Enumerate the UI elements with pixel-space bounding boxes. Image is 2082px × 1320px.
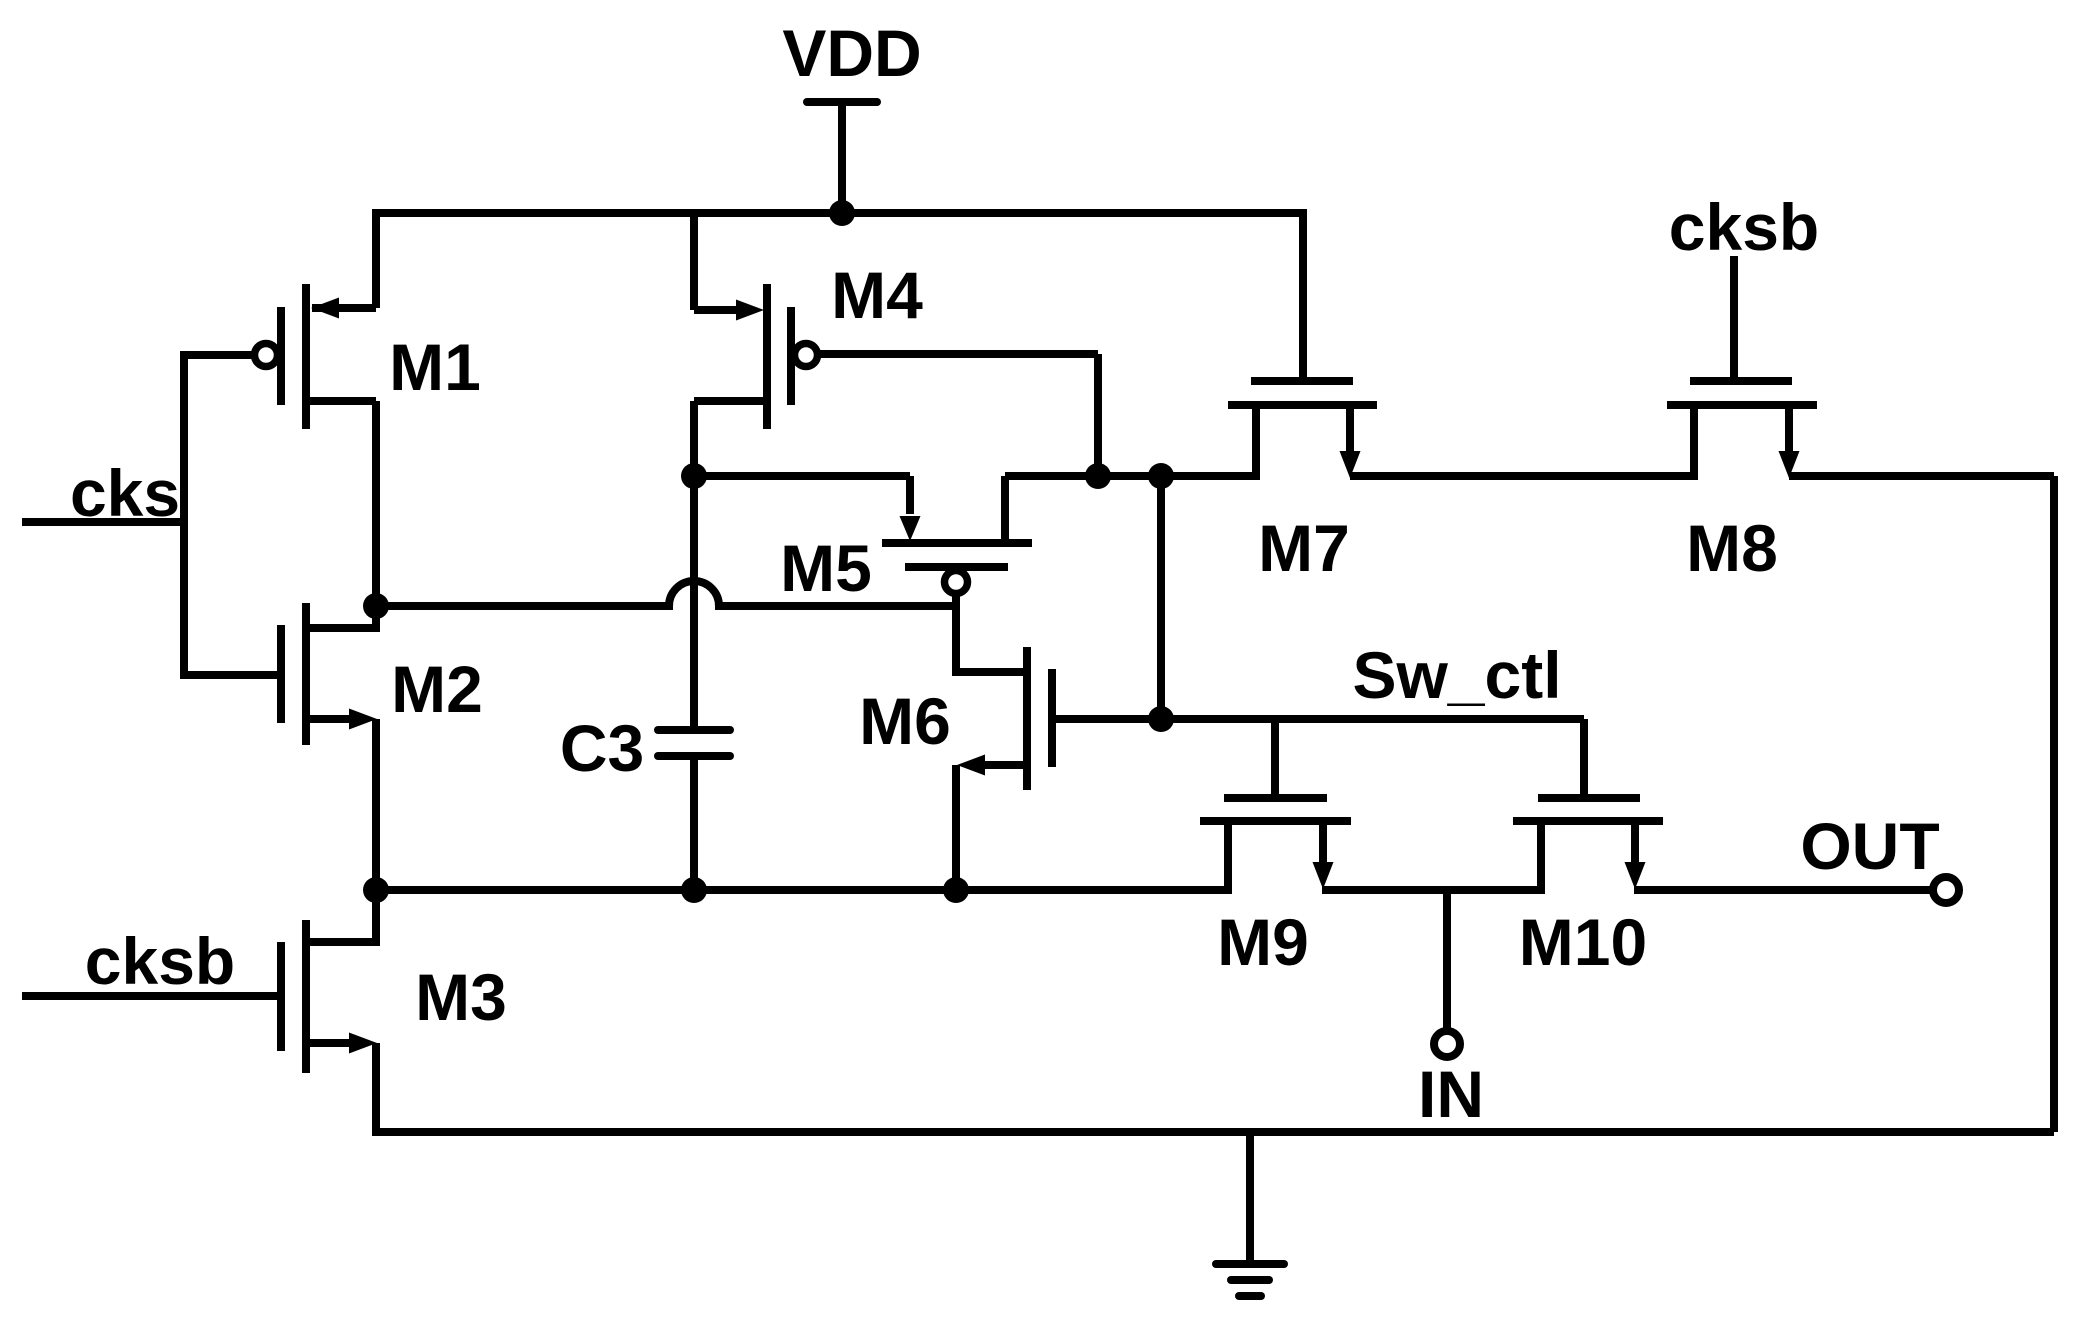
capacitor C3	[560, 476, 730, 894]
terminal IN	[1418, 890, 1484, 1131]
net Sw_ctl	[1161, 638, 1584, 798]
node C3 bottom junction	[681, 877, 707, 903]
svg-text:OUT: OUT	[1800, 809, 1939, 883]
node VDD junction	[829, 200, 855, 226]
svg-text:M4: M4	[831, 258, 923, 332]
transistor M10	[1513, 798, 1663, 979]
wire boost node line with hop	[376, 581, 956, 606]
svg-text:M6: M6	[859, 684, 951, 758]
node M6 gate junction	[1148, 706, 1174, 732]
svg-text:Sw_ctl: Sw_ctl	[1352, 638, 1561, 712]
wire bottom ground rail	[372, 1128, 2054, 1136]
svg-text:M2: M2	[391, 652, 483, 726]
transistor M5	[780, 476, 1032, 605]
svg-text:IN: IN	[1418, 1057, 1484, 1131]
wire boosted node rail	[694, 476, 1256, 719]
node M1 source / M2 drain junction	[363, 593, 389, 619]
wire M8 drain to bottom right rail	[1789, 476, 2054, 1132]
node M6 gate riser junction	[1148, 463, 1174, 489]
node M6 source junction	[943, 877, 969, 903]
power VDD	[782, 16, 921, 213]
wire M1 source riser	[372, 401, 380, 610]
svg-text:M3: M3	[415, 960, 507, 1034]
transistor M2	[184, 603, 483, 894]
wire M5 gate to M6 drain stem	[952, 590, 960, 676]
svg-text:M10: M10	[1519, 905, 1647, 979]
transistor M7	[1228, 209, 1377, 585]
svg-text:M7: M7	[1258, 511, 1350, 585]
wire lower node rail	[376, 886, 1228, 894]
svg-text:M8: M8	[1686, 511, 1778, 585]
wire M1 drain riser	[372, 209, 380, 308]
ground	[1216, 1132, 1284, 1296]
terminal OUT	[1800, 809, 1959, 903]
svg-text:VDD: VDD	[782, 16, 921, 90]
wire M7 drain to M8 source rail	[1350, 472, 1694, 480]
wire OUT line	[1634, 886, 1932, 894]
node M2 source / M3 drain junction	[363, 877, 389, 903]
svg-text:M5: M5	[780, 531, 872, 605]
transistor M6	[859, 647, 1161, 894]
svg-text:cksb: cksb	[1669, 190, 1819, 264]
svg-text:cksb: cksb	[85, 924, 235, 998]
transistor M3	[22, 890, 507, 1136]
transistor M8	[1667, 190, 1819, 585]
node M4 source / C3 junction	[681, 463, 707, 489]
transistor M4	[694, 209, 1098, 480]
transistor M1	[184, 284, 481, 429]
svg-text:M9: M9	[1217, 905, 1309, 979]
svg-text:M1: M1	[389, 330, 481, 404]
net cks input	[22, 351, 184, 679]
transistor M9	[1200, 719, 1351, 979]
wire M9 drain to M10 source rail	[1322, 886, 1541, 894]
svg-text:C3: C3	[560, 711, 644, 785]
wire top rail VDD net	[376, 209, 1303, 217]
node M4 gate junction	[1085, 463, 1111, 489]
